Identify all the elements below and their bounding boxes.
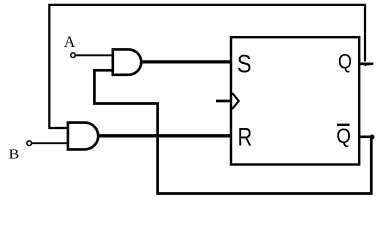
wire input A to upper AND gate <box>75 54 113 56</box>
svg-text:Q: Q <box>338 50 352 73</box>
wire Q feedback: top loop from Q output up-left-down to lower AND gate input <box>49 5 365 128</box>
wire Qbar output stub <box>359 136 374 139</box>
node B terminal <box>27 141 32 146</box>
svg-text:Q: Q <box>336 125 351 148</box>
svg-text:R: R <box>238 123 253 151</box>
wire G1 output to S input <box>141 60 232 63</box>
svg-text:B: B <box>9 148 20 163</box>
AND gate G1 (upper) <box>113 49 141 74</box>
node A terminal <box>71 53 76 58</box>
flip-flop U1 body <box>231 37 359 164</box>
svg-text:A: A <box>64 34 76 51</box>
wire input B to lower AND gate <box>32 142 69 144</box>
svg-text:S: S <box>237 51 252 79</box>
junction dot on Qbar stub <box>370 135 375 140</box>
wire G2 output to R input <box>98 134 232 137</box>
Qbar overbar <box>337 124 350 126</box>
clock edge triangle <box>232 93 239 109</box>
wire arrowhead at Q junction <box>362 63 369 67</box>
wire clock stub <box>216 100 231 103</box>
AND gate G2 (lower) <box>68 123 98 150</box>
wire Q output stub <box>359 62 373 65</box>
wire Qbar feedback: from Qbar stub down-left-up into upper AND gate input <box>94 70 371 193</box>
